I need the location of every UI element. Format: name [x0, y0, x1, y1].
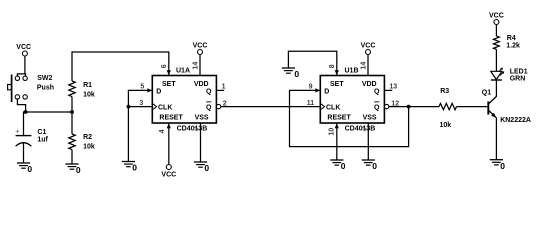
- resistor R2: [69, 134, 75, 150]
- power VCC symbol V2 (U1A VDD): [193, 42, 208, 54]
- svg-text:D: D: [324, 88, 329, 95]
- svg-text:7: 7: [194, 126, 201, 130]
- wire R1 to node: [71, 97, 73, 112]
- svg-text:0: 0: [204, 163, 209, 173]
- svg-text:RESET: RESET: [327, 114, 351, 121]
- U1B Qbar bubble: [385, 104, 389, 108]
- svg-text:10k: 10k: [83, 91, 95, 98]
- wire VCC to U1A VDD: [199, 55, 201, 76]
- svg-text:C1: C1: [37, 129, 46, 136]
- power VCC symbol V1 (switch supply): [16, 44, 31, 56]
- svg-text:Push: Push: [37, 84, 54, 91]
- svg-text:SET: SET: [162, 81, 176, 88]
- wire Q1 collector to LED: [495, 80, 497, 96]
- ground GND at C1: [17, 163, 33, 174]
- svg-text:8: 8: [329, 64, 336, 68]
- power VCC symbol V4 (U1B VDD): [361, 42, 376, 54]
- svg-text:CLK: CLK: [158, 105, 172, 112]
- wire node to C1: [23, 111, 25, 135]
- svg-text:3: 3: [139, 100, 143, 107]
- svg-text:VCC: VCC: [489, 12, 504, 19]
- U1B CLK wedge: [320, 103, 324, 110]
- junction Qbar/feedback node: [407, 105, 411, 109]
- arrow into U1B RESET pin: [335, 123, 339, 128]
- svg-text:VDD: VDD: [362, 81, 377, 88]
- arrow into U1B D pin: [315, 88, 320, 92]
- svg-text:0: 0: [372, 161, 377, 171]
- svg-text:D: D: [156, 88, 161, 95]
- svg-text:1: 1: [222, 83, 226, 90]
- wire VCC to SW2 top: [24, 56, 26, 74]
- ground GND at U1A VSS: [194, 162, 210, 173]
- svg-text:0: 0: [500, 161, 505, 171]
- wire feedback Qbar to D: [290, 90, 409, 147]
- svg-text:14: 14: [360, 62, 367, 70]
- svg-text:U1A: U1A: [176, 68, 190, 75]
- wire top rail to R1: [71, 51, 73, 81]
- junction node SW2/C1/R2: [24, 110, 28, 114]
- wire ground to U1B SET: [288, 51, 336, 75]
- arrow into U1A RESET pin: [167, 123, 171, 128]
- svg-text:7: 7: [362, 126, 369, 130]
- svg-text:RESET: RESET: [159, 114, 183, 121]
- ground GND at U1A D/CLK: [122, 162, 138, 173]
- svg-text:0: 0: [341, 161, 346, 171]
- wire U1A CLK pin: [128, 106, 152, 108]
- arrow into U1A SET pin: [167, 70, 171, 75]
- svg-text:KN2222A: KN2222A: [500, 117, 531, 124]
- wire U1B D pin: [290, 89, 321, 91]
- ground GND at R2: [65, 164, 81, 175]
- arrow into U1A D pin: [147, 88, 152, 92]
- svg-text:Q: Q: [374, 88, 380, 95]
- svg-text:Q: Q: [374, 105, 380, 112]
- svg-text:5: 5: [140, 83, 144, 90]
- wire Q1 emitter to ground: [495, 118, 497, 160]
- power VCC symbol V5 (LED supply): [489, 12, 504, 24]
- wire U1B RESET to ground: [336, 123, 338, 160]
- capacitor C1: [16, 136, 32, 163]
- wire VCC to U1B VDD: [367, 55, 369, 76]
- pushbutton SW2 bottom contacts: [15, 95, 27, 99]
- svg-text:VCC: VCC: [16, 44, 31, 51]
- svg-text:0: 0: [294, 69, 299, 79]
- svg-text:9: 9: [309, 83, 313, 90]
- power VCC symbol V3 (U1A RESET): [161, 165, 176, 179]
- resistor R3: [439, 103, 457, 109]
- svg-text:R4: R4: [507, 35, 516, 42]
- resistor R4: [494, 36, 500, 49]
- wire R2 to ground: [71, 150, 73, 164]
- svg-text:CD4013B: CD4013B: [345, 125, 376, 132]
- wire U1A D pin: [128, 89, 152, 91]
- wire U1A Qbar to U1B CLK: [221, 106, 320, 108]
- svg-text:6: 6: [161, 64, 168, 68]
- pushbutton SW2 top contacts: [15, 76, 27, 80]
- svg-text:R1: R1: [83, 82, 92, 89]
- svg-text:R2: R2: [83, 134, 92, 141]
- svg-text:13: 13: [389, 83, 397, 90]
- svg-text:VCC: VCC: [193, 42, 208, 49]
- svg-text:VCC: VCC: [161, 172, 176, 179]
- wire U1A VSS to ground: [200, 123, 202, 162]
- svg-text:1.2k: 1.2k: [506, 43, 520, 50]
- svg-text:10k: 10k: [83, 143, 95, 150]
- svg-text:0: 0: [27, 164, 32, 174]
- svg-text:14: 14: [192, 62, 199, 70]
- svg-text:VSS: VSS: [363, 114, 377, 121]
- wire U1B VSS to ground: [367, 123, 369, 160]
- svg-text:U1B: U1B: [345, 68, 359, 75]
- transistor Q1: [488, 96, 496, 117]
- ground GND at Q1 emitter: [490, 160, 506, 171]
- svg-text:Q: Q: [206, 105, 212, 112]
- resistor R1: [69, 81, 75, 97]
- op-amp U1B CD4013B flip-flop body: [320, 76, 384, 124]
- wire LED to R4: [495, 49, 497, 71]
- wire U1A RESET to VCC: [168, 123, 170, 165]
- U1A CLK wedge: [152, 103, 156, 110]
- svg-text:11: 11: [307, 100, 315, 107]
- pushbutton SW2 actuator: [8, 75, 12, 103]
- junction D/CLK node: [126, 105, 130, 109]
- wire U1B Qbar to R3: [389, 106, 439, 108]
- svg-text:CD4013B: CD4013B: [177, 125, 208, 132]
- svg-text:10k: 10k: [440, 122, 452, 129]
- svg-text:GRN: GRN: [510, 76, 526, 83]
- svg-text:VCC: VCC: [361, 42, 376, 49]
- LED1 emission arrows: [499, 68, 505, 76]
- svg-text:Q1: Q1: [482, 90, 491, 97]
- svg-text:4: 4: [159, 129, 166, 133]
- wire U1B Q pin 13 stub: [384, 89, 392, 91]
- U1A Qbar bubble: [216, 104, 220, 108]
- pushbutton SW2 top bridge: [17, 74, 25, 76]
- wire R4 to VCC: [495, 24, 497, 36]
- LED LED1: [491, 71, 502, 80]
- svg-text:LED1: LED1: [510, 68, 528, 75]
- svg-text:VDD: VDD: [194, 81, 209, 88]
- wire node rail C1-SW2-R2: [24, 111, 73, 113]
- svg-text:10: 10: [328, 128, 335, 136]
- svg-text:0: 0: [132, 163, 137, 173]
- wire R3 to Q1 base: [457, 106, 488, 108]
- ground GND at U1B RESET: [330, 160, 346, 171]
- svg-text:0: 0: [76, 165, 81, 175]
- C1 polarity +: [16, 130, 20, 134]
- ground GND at U1B SET: [282, 68, 300, 79]
- wire node to R2: [71, 112, 73, 134]
- wire U1A Q pin 1 stub: [216, 89, 224, 91]
- svg-text:CLK: CLK: [326, 105, 340, 112]
- svg-text:SW2: SW2: [37, 75, 52, 82]
- junction node R1/R2: [70, 110, 74, 114]
- pushbutton SW2 bottom bridge: [17, 99, 25, 112]
- wire R1 top rail to U1A SET: [72, 52, 169, 76]
- svg-text:VSS: VSS: [195, 114, 209, 121]
- wire D-CLK vertical to ground: [127, 90, 129, 162]
- ground GND at U1B VSS: [362, 160, 378, 171]
- arrow into U1B SET pin: [335, 70, 339, 75]
- svg-text:R3: R3: [440, 88, 449, 95]
- svg-text:Q: Q: [206, 88, 212, 95]
- svg-text:SET: SET: [330, 81, 344, 88]
- op-amp U1A CD4013B flip-flop body: [152, 76, 216, 124]
- svg-text:1uf: 1uf: [37, 137, 48, 144]
